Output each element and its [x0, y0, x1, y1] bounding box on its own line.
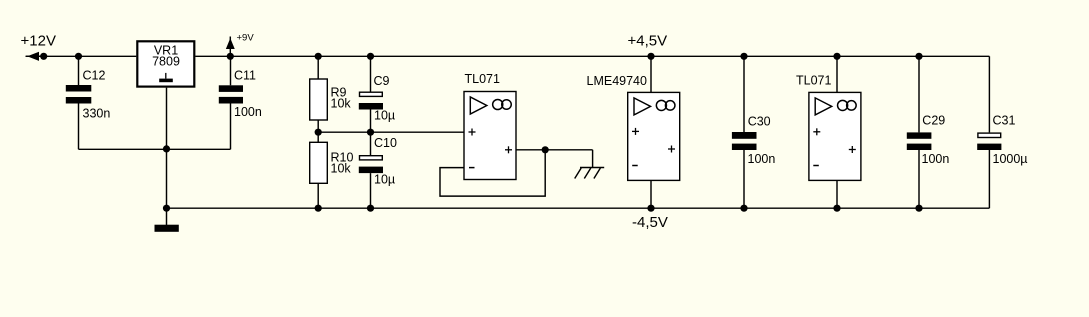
node C29 top junction — [915, 53, 922, 60]
svg-text:C10: C10 — [374, 136, 397, 150]
ground bar — [155, 225, 179, 232]
resistor R9 — [310, 56, 328, 132]
op-amp U2 LME49740 — [628, 56, 680, 208]
svg-text:C12: C12 — [83, 69, 106, 83]
node VR1 ground link junction — [163, 145, 170, 152]
wire top rail main segment — [195, 55, 989, 57]
capacitor C11 — [219, 56, 243, 149]
svg-text:LME49740: LME49740 — [587, 74, 648, 88]
svg-text:+9V: +9V — [237, 32, 255, 43]
node C29 bottom junction — [915, 205, 922, 212]
svg-text:10k: 10k — [331, 97, 352, 111]
svg-text:+12V: +12V — [21, 33, 56, 50]
op-amp U1 TL071 buffer — [464, 92, 516, 180]
svg-text:10k: 10k — [331, 162, 352, 176]
node U2 V+ junction — [647, 53, 654, 60]
svg-text:7809: 7809 — [152, 55, 180, 69]
node R10 bottom junction — [315, 205, 322, 212]
node C9 top junction — [367, 53, 374, 60]
capacitor C12 — [66, 56, 92, 149]
power arrow +9V — [227, 37, 234, 57]
svg-text:C31: C31 — [993, 114, 1016, 128]
node U2 V- junction — [647, 205, 654, 212]
wire U1 feedback — [440, 150, 545, 196]
node VR1 bottom rail junction — [163, 205, 170, 212]
node C30 top junction — [740, 53, 747, 60]
node +9V junction — [227, 53, 234, 60]
svg-text:100n: 100n — [234, 105, 262, 119]
wire top rail left segment — [26, 55, 136, 57]
capacitor C10 polarized — [359, 132, 383, 208]
node C12 top junction — [75, 53, 82, 60]
svg-text:1000µ: 1000µ — [993, 152, 1028, 166]
svg-text:10µ: 10µ — [374, 108, 395, 122]
op-amp U3 TL071 — [809, 56, 861, 208]
wire U1 output — [516, 149, 593, 151]
node R9 R10 mid junction — [315, 129, 322, 136]
svg-text:C11: C11 — [234, 69, 256, 83]
svg-text:-4,5V: -4,5V — [632, 214, 668, 231]
node U1 output junction — [542, 146, 549, 153]
svg-text:100n: 100n — [922, 152, 950, 166]
capacitor C29 — [907, 56, 932, 208]
node input junction — [40, 53, 47, 60]
wire mid rail (virtual ground) — [318, 131, 464, 133]
wire ground link horizontal — [79, 148, 231, 150]
capacitor C9 polarized — [359, 56, 383, 132]
svg-text:TL071: TL071 — [465, 72, 500, 86]
node U3 V+ junction — [833, 53, 840, 60]
input terminal arrow +12V — [26, 53, 44, 61]
node R9 top junction — [315, 53, 322, 60]
wire bottom rail — [167, 207, 990, 209]
svg-text:C30: C30 — [748, 115, 771, 129]
resistor R10 — [310, 132, 328, 208]
regulator VR1 7809 — [137, 41, 194, 86]
wire to signal ground — [592, 150, 594, 168]
capacitor C30 — [732, 56, 757, 208]
svg-text:TL071: TL071 — [796, 74, 831, 88]
signal ground symbol — [575, 168, 605, 179]
svg-text:C9: C9 — [374, 74, 390, 88]
node U3 V- junction — [833, 205, 840, 212]
node C9 C10 mid junction — [367, 129, 374, 136]
svg-text:100n: 100n — [748, 152, 776, 166]
node C30 bottom junction — [740, 205, 747, 212]
svg-text:330n: 330n — [83, 106, 111, 120]
capacitor C31 polarized — [977, 133, 1001, 150]
node C10 bottom junction — [367, 205, 374, 212]
svg-text:10µ: 10µ — [374, 172, 395, 186]
wire right edge vertical lower — [988, 150, 990, 208]
wire right edge vertical upper — [988, 56, 990, 132]
wire VR1 ground vertical — [166, 88, 168, 226]
svg-text:+4,5V: +4,5V — [628, 33, 668, 50]
svg-text:C29: C29 — [922, 114, 945, 128]
